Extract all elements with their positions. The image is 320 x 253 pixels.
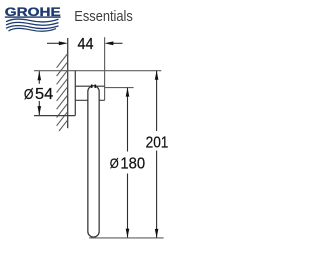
GROHE logo wave 1 (6, 19, 59, 22)
holder mid line (left segment) (75, 85, 91, 87)
GROHE logo underline bar (5, 16, 61, 17)
dimension 44: right arrow (points left) (104, 41, 113, 45)
svg-text:Ø: Ø (24, 86, 34, 103)
dimension D180: label mask (107, 152, 149, 174)
dimension D180: bottom arrow (points down) (126, 229, 130, 238)
dimension 44: left dim line segment (47, 42, 62, 44)
towel ring (side view capsule) (88, 86, 99, 237)
dimension 44: left arrow (points right, tip at wall) (59, 41, 68, 45)
dimension 201: bottom extension line (89, 237, 164, 239)
rosette right edge (74, 71, 76, 116)
svg-text:180: 180 (120, 155, 145, 172)
dimension D180: top arrow (points up) (126, 88, 130, 97)
ring-top extension line (105, 87, 134, 89)
holder bottom line (75, 99, 104, 101)
dimension D180: dim line (127, 88, 129, 238)
ring pivot tick left (91, 85, 93, 88)
ring pivot tick right (95, 85, 97, 88)
GROHE logo wave 3 (6, 26, 59, 29)
wall line (left extension of 44) (67, 38, 69, 128)
GROHE logo wave 4 (9, 28, 57, 31)
dimension 201: bottom arrow (points down) (155, 229, 159, 238)
dimension 44: right dim line segment (110, 42, 123, 44)
svg-text:54: 54 (35, 86, 53, 103)
long extension line y70.7 (rosette/holder top + dim extensions) (34, 70, 161, 72)
dimension D54: dim line (38, 71, 40, 115)
dimension 201: top arrow (points up) (155, 71, 159, 80)
holder right edge (right extension of 44) (104, 37, 106, 100)
svg-text:44: 44 (78, 36, 94, 53)
GROHE logo wave 2 (6, 22, 59, 25)
dimension D54: label mask (22, 84, 56, 101)
svg-text:Essentials: Essentials (74, 9, 133, 25)
holder mid line (right segment) (96, 85, 105, 87)
dimension 201: dim line (156, 71, 158, 238)
dimension 201: label mask (143, 131, 170, 151)
svg-text:Ø: Ø (110, 156, 119, 171)
svg-text:201: 201 (146, 134, 169, 151)
dimension D54: top arrow (points up) (38, 71, 42, 80)
wall hatching (57, 54, 68, 132)
dimension D54: bottom arrow (points down) (38, 106, 42, 115)
rosette bottom extension line (34, 115, 75, 117)
